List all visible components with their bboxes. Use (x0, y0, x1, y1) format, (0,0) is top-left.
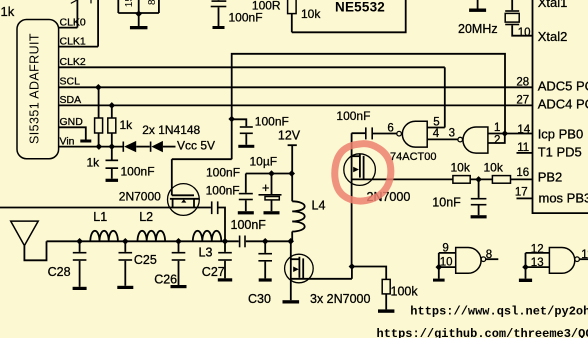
svg-text:100nF: 100nF (336, 109, 370, 123)
PA drain-source line (290, 241, 292, 300)
arrow of RX mute FET (181, 199, 186, 202)
ground symbol U1d inputs (525, 267, 527, 279)
svg-text:10k: 10k (301, 7, 321, 21)
svg-text:74ACT00: 74ACT00 (390, 151, 436, 163)
capacitor 100nF at mute-gate node (240, 126, 253, 128)
wire U1c output pin 8 (486, 258, 499, 260)
node junction C25 (122, 238, 129, 245)
capacitor 10nF (478, 179, 480, 198)
key FET bottom jog and gate lead to 10k (352, 178, 453, 180)
svg-text:mos PB3: mos PB3 (539, 191, 588, 206)
bubble of U1a (397, 131, 402, 136)
junction dot under pins 15/8 (135, 11, 142, 18)
svg-text:CLK2: CLK2 (60, 56, 86, 68)
red highlight circle around key FET (335, 144, 391, 201)
wire U1b pin 1 (488, 133, 505, 135)
svg-text:3x 2N7000: 3x 2N7000 (310, 292, 371, 306)
wire U1d input pin 12 (526, 252, 550, 254)
IC ATmega328 left edge and bottom edge (533, 0, 588, 213)
bus wire SCL to IC pin 28 (59, 86, 533, 88)
svg-text:2N7000: 2N7000 (119, 190, 161, 204)
node junction L4 bottom / PA drain (287, 238, 294, 245)
wire CLK1 vertical riser going off top edge (97, 0, 99, 47)
svg-text:8: 8 (486, 249, 492, 261)
svg-text:L3: L3 (199, 245, 213, 259)
inductor L3 (193, 231, 222, 242)
bus wire SDA to IC pin 27 (59, 104, 533, 106)
svg-text:C27: C27 (202, 265, 225, 279)
svg-text:3: 3 (449, 128, 455, 140)
inductor L4 RF choke (292, 201, 305, 231)
wire U1c input pin 9 (439, 252, 456, 254)
svg-text:10µF: 10µF (250, 155, 278, 169)
node junction Vin / 1k pull-up 2 (109, 143, 116, 150)
wire key-shaping node vertical (351, 133, 353, 266)
PA gate bar (302, 258, 304, 279)
svg-text:ADC4 PC4: ADC4 PC4 (538, 97, 588, 112)
svg-text:CLK1: CLK1 (60, 36, 86, 48)
bubble of U1d (575, 257, 580, 262)
svg-text:L2: L2 (139, 210, 153, 224)
svg-text:10nF: 10nF (432, 196, 461, 210)
svg-text:10k: 10k (451, 161, 471, 175)
pin 11 stub wire T1 PD5 (517, 152, 533, 154)
diode 1N4148 D2 (150, 142, 152, 152)
node junction SDA pull-up (109, 102, 116, 109)
wire between 10k resistors (470, 178, 492, 180)
wire to IC pin 14 (505, 133, 533, 135)
svg-text:16: 16 (516, 167, 529, 179)
svg-text:100R: 100R (252, 0, 281, 12)
capacitor C27 (224, 241, 226, 252)
svg-text:C25: C25 (134, 253, 157, 267)
key FET arrow (353, 167, 359, 173)
svg-text:https://www.qsl.net/py2ohh: https://www.qsl.net/py2ohh (410, 304, 588, 318)
svg-text:100nF: 100nF (255, 115, 289, 129)
node junction Vin / 1k pull-up 1 (96, 143, 103, 150)
svg-text:SDA: SDA (60, 94, 82, 106)
12V supply terminal tick (288, 144, 297, 146)
wire CLK0 vertical riser going off top edge (76, 0, 78, 28)
node junction key node / 100k / PA gate (349, 263, 356, 270)
node junction C27 / RX tap (222, 238, 229, 245)
capacitor 100nF RX coupling (211, 201, 213, 214)
channel bar of RX mute FET (170, 198, 200, 200)
svg-text:GND: GND (60, 116, 84, 128)
svg-text:ADC5 PC5: ADC5 PC5 (538, 79, 588, 94)
ground symbol below pins 15/8 (138, 14, 140, 26)
svg-text:9: 9 (442, 243, 448, 255)
node junction on riser for 100nF (228, 116, 235, 123)
wire joining U1c inputs (438, 253, 440, 267)
wire from crystal to IC pin 10 (512, 25, 532, 35)
svg-text:100nF: 100nF (229, 10, 263, 24)
node junction U1c inputs (436, 264, 443, 271)
resistor 100k (382, 279, 390, 294)
resistor 1k pull-up on SCL (98, 87, 100, 118)
transistor 2N7000 key shaping (circled) (344, 154, 376, 186)
capacitor 100nF decoupling at top edge (218, 0, 220, 1)
wire riser down to 74ACT00 pin 5 (444, 67, 446, 127)
svg-text:1k: 1k (87, 156, 101, 170)
PA bottom jog and gate lead to key node (291, 278, 352, 280)
gate bar of RX mute FET (172, 194, 194, 196)
ground symbol at module GND pin (80, 140, 91, 143)
svg-text:100nF: 100nF (231, 218, 267, 232)
drain stub of RX mute FET (193, 199, 195, 208)
svg-text:+: + (262, 181, 269, 195)
node junction C28 (76, 238, 83, 245)
capacitor 100nF series in PA line (239, 236, 241, 248)
svg-text:12: 12 (531, 244, 544, 256)
resistor 1k pull-up on SDA (111, 105, 113, 118)
svg-text:100nF: 100nF (206, 183, 240, 197)
svg-text:SCL: SCL (60, 76, 81, 88)
svg-text:2x 1N4148: 2x 1N4148 (142, 123, 200, 137)
key FET gate bar (363, 156, 365, 179)
capacitor 100nF coupling to 74ACT00 pin 6 (365, 127, 367, 139)
resistor 10k in NE5532 feedback (box cut at top edge) (288, 0, 297, 14)
node junction C30 (262, 238, 269, 245)
wire from 10k resistor down to NE5532 box corner (291, 14, 293, 33)
bubble of U1b (458, 137, 463, 142)
svg-text:100k: 100k (391, 285, 419, 299)
svg-text:NE5532: NE5532 (335, 0, 385, 15)
diode 1N4148 D1 (123, 142, 125, 152)
wire 10k to IC pin 16 (511, 178, 533, 180)
key FET top jog to channel (352, 155, 360, 157)
wire 12V rail to filter caps (246, 173, 292, 175)
svg-text:17: 17 (515, 187, 528, 199)
PA arrow (293, 267, 299, 273)
PA top jog to channel (291, 258, 300, 260)
wire series cap to PA drain node (246, 240, 291, 242)
wire U1a pin 4 to U1b output (427, 138, 458, 140)
wire antenna to filter input (24, 241, 46, 260)
wire joining U1d inputs (525, 253, 527, 267)
svg-text:5: 5 (433, 117, 439, 129)
antenna symbol (11, 221, 39, 246)
transistor 2N7000 RX mute switch (rotated) (168, 184, 200, 216)
svg-text:2: 2 (494, 135, 500, 147)
wire from RX coupling cap down to filter junction (219, 208, 226, 242)
module SI5351 ADAFRUIT body (17, 20, 59, 159)
capacitor C26 (178, 241, 180, 252)
svg-text:L4: L4 (312, 199, 326, 213)
svg-text:100nF: 100nF (121, 165, 155, 179)
capacitor C25 (124, 241, 126, 252)
svg-text:C30: C30 (248, 292, 271, 306)
op-amp NE5532 box (cut off at top edge) (292, 0, 406, 32)
ground symbol next to 20MHz crystal (477, 0, 479, 9)
PA channel bar (298, 257, 300, 278)
capacitor 100nF low-pass supply decoupler (245, 174, 247, 193)
wire from riser to RX mute FET gate (172, 158, 232, 160)
node junction C26 (175, 238, 182, 245)
bus wire from pin-14 node, top run (232, 54, 505, 159)
svg-text:20MHz: 20MHz (458, 22, 498, 36)
gate U1b 74ACT00 (left-facing) (463, 127, 488, 153)
resistor 10k second (492, 176, 510, 184)
svg-text:PB2: PB2 (538, 170, 563, 185)
capacitor C30 (264, 241, 266, 253)
wire Vin pin to diodes (59, 146, 123, 148)
wire U1d output pin 11 (579, 258, 588, 260)
wire junction down to PA gate run (351, 267, 353, 279)
wire U1d input pin 13 (526, 266, 550, 268)
svg-text:13: 13 (531, 257, 544, 269)
svg-text:SI5351 ADAFRUIT: SI5351 ADAFRUIT (28, 33, 42, 144)
node junction 12V rail / caps (288, 170, 295, 177)
wire U1a pin 5 (427, 127, 445, 129)
rotated pin-number fragment at top of CLK0 riser (71, 0, 77, 3)
wire diode to Vcc 5V (163, 146, 176, 148)
node junction U1d inputs (522, 264, 529, 271)
node junction SCL pull-up (95, 84, 102, 91)
crystal X1 20MHz (511, 0, 513, 10)
svg-text:1: 1 (494, 122, 500, 134)
svg-text:11: 11 (581, 249, 588, 261)
resistor 10k first (453, 176, 470, 184)
pin wires of IC above top edge with pin 15 and 8 (117, 0, 119, 13)
svg-text:C28: C28 (48, 265, 71, 279)
capacitor 10uF electrolytic (271, 174, 273, 195)
inductor L2 (138, 231, 166, 242)
bus wire CLK2 to 74ACT00 pin 5 riser (59, 66, 445, 68)
svg-text:C26: C26 (154, 272, 177, 286)
svg-text:T1 PD5: T1 PD5 (538, 145, 582, 160)
svg-text:100nF: 100nF (206, 166, 240, 180)
source stub of RX mute FET (172, 199, 174, 208)
wire 100k to ground (385, 294, 387, 310)
svg-text:6: 6 (387, 122, 393, 134)
svg-text:L1: L1 (93, 210, 107, 224)
ground symbol below 100k (378, 309, 394, 312)
rotated pin-number fragment at top of CLK1 riser (90, 0, 92, 3)
svg-text:10k: 10k (484, 161, 504, 175)
transistor 3x 2N7000 PA (285, 254, 314, 283)
capacitor 100nF on Vin rail (111, 147, 113, 160)
wire jog from junction to 100nF cap (232, 119, 247, 126)
svg-text:CLK0: CLK0 (60, 16, 86, 28)
wire RX audio line going off left edge to coupling cap (0, 207, 211, 209)
inductor L1 (90, 231, 118, 242)
bubble of U1c (481, 257, 486, 262)
wire GND pin to ground (59, 127, 86, 139)
wire U1c input pin 10 (439, 266, 456, 268)
svg-text:Vcc 5V: Vcc 5V (177, 138, 215, 152)
ground symbol PA source (283, 300, 300, 303)
node junction 10uF top (268, 170, 275, 177)
wire 12V rail down to L4 (291, 145, 293, 201)
wire CLK0 pin wire from module (59, 27, 78, 29)
wire to 100k resistor (352, 267, 386, 280)
ground symbol U1c inputs (438, 267, 440, 279)
svg-text:4: 4 (433, 128, 440, 140)
svg-text:8: 8 (147, 0, 158, 5)
pin 17 stub wire mos PB3 (517, 197, 533, 199)
wire between diodes (136, 146, 150, 148)
capacitor C28 (79, 241, 81, 252)
node junction pin 14 (502, 130, 509, 137)
svg-text:1k: 1k (1, 4, 15, 19)
svg-text:10: 10 (518, 27, 531, 39)
gate U1a 74ACT00 (left-facing) (402, 121, 427, 147)
node junction 10nF tap (475, 176, 482, 183)
svg-text:https://github.com/threeme3/QC: https://github.com/threeme3/QCX-SSB (377, 327, 588, 338)
svg-text:Icp PB0: Icp PB0 (538, 127, 584, 142)
svg-text:Xtal2: Xtal2 (538, 29, 568, 44)
svg-text:Xtal1: Xtal1 (538, 0, 568, 10)
svg-text:15: 15 (124, 0, 135, 7)
main filter wire (47, 240, 239, 242)
svg-text:Vin: Vin (60, 136, 75, 148)
wire U1b pin 2 (488, 134, 505, 144)
key FET channel bar (359, 154, 361, 178)
wire CLK1 pin wire from module (59, 46, 99, 48)
svg-text:12V: 12V (278, 129, 301, 143)
svg-text:1k: 1k (120, 118, 134, 132)
gate U1c 74ACT00 (right-facing) (456, 248, 481, 274)
gate U1d 74ACT00 (right-facing) (549, 248, 574, 274)
